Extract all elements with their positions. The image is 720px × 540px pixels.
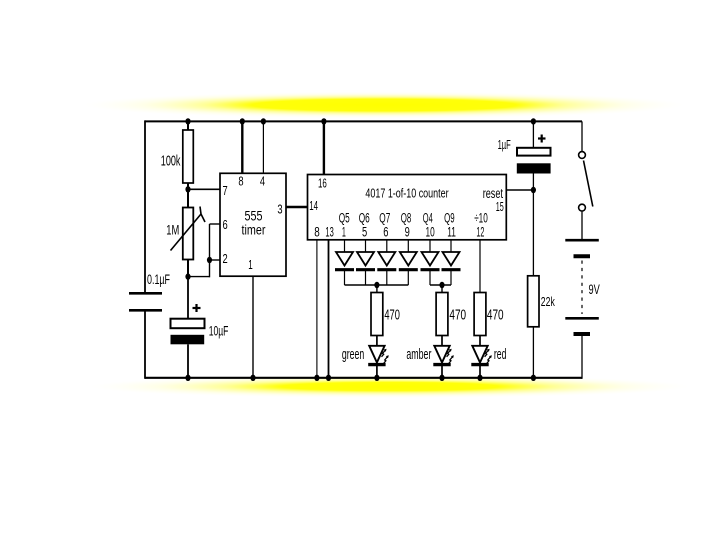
svg-text:0.1µF: 0.1µF	[147, 272, 170, 287]
svg-text:Q4: Q4	[423, 211, 433, 226]
svg-text:4017 1-of-10 counter: 4017 1-of-10 counter	[365, 186, 449, 201]
svg-text:3: 3	[277, 202, 282, 217]
node 22k rail	[531, 375, 536, 381]
capacitor 1uF plus sign	[538, 135, 546, 143]
svg-text:1M: 1M	[166, 222, 179, 238]
resistor 470 amber	[436, 293, 448, 336]
diode D5	[421, 240, 440, 285]
svg-text:22k: 22k	[541, 295, 556, 309]
battery 9V	[565, 240, 599, 379]
wire pin 13 to 0V rail	[328, 240, 330, 378]
node 10uF on 0V rail	[185, 375, 190, 381]
wire pin 2 stub	[210, 259, 221, 261]
resistor 1M (variable)	[183, 208, 194, 260]
node pin 8 rail	[240, 118, 245, 124]
yellow glow band bottom	[90, 375, 690, 398]
wire down to 10uF	[187, 277, 189, 319]
wire reset junction to 22k	[532, 190, 534, 276]
svg-text:10: 10	[426, 224, 435, 239]
LED green	[368, 336, 389, 378]
svg-text:14: 14	[309, 199, 318, 213]
diode D6	[442, 240, 461, 285]
wire junction to pin2/6 riser	[188, 276, 210, 278]
svg-text:8: 8	[238, 174, 243, 189]
wire left branch upper	[144, 120, 146, 293]
node 100k rail	[185, 118, 190, 124]
svg-text:9V: 9V	[589, 282, 600, 297]
svg-text:1: 1	[248, 257, 253, 272]
wire amber bus to resistor	[441, 285, 443, 293]
wire rail to 1uF	[532, 121, 534, 147]
node junction 1M bottom	[185, 273, 190, 279]
svg-text:6: 6	[223, 217, 228, 232]
svg-text:6: 6	[383, 224, 388, 239]
svg-text:12: 12	[476, 224, 484, 239]
wire top supply rail	[145, 120, 582, 122]
wire amber diode bus	[430, 284, 451, 286]
node 1uF rail	[531, 118, 536, 124]
node reset junction	[531, 187, 536, 193]
svg-text:16: 16	[318, 177, 327, 191]
svg-text:1: 1	[342, 224, 346, 239]
node pin 4 rail	[261, 118, 266, 124]
node junction pin 2	[207, 257, 212, 263]
IC U2 4017 counter box	[308, 175, 507, 240]
node pin 13 rail	[326, 375, 331, 381]
svg-text:green: green	[342, 346, 364, 363]
LED amber	[433, 336, 454, 378]
svg-text:11: 11	[447, 224, 456, 239]
node amber LED rail	[439, 375, 444, 381]
svg-text:470: 470	[487, 308, 504, 324]
wire 100k bottom	[187, 183, 189, 208]
svg-text:Q6: Q6	[359, 211, 370, 226]
capacitor 0.1uF plates	[129, 293, 162, 310]
op-amp U1 555 timer box	[220, 173, 286, 276]
svg-text:10µF: 10µF	[209, 322, 229, 338]
svg-text:red: red	[494, 346, 507, 363]
wire green diode bus	[345, 284, 409, 286]
svg-text:1µF: 1µF	[498, 137, 511, 152]
svg-text:Q7: Q7	[379, 211, 390, 226]
wire green bus to resistor	[376, 285, 378, 293]
wire pin 4 to rail	[262, 121, 264, 173]
svg-text:Q5: Q5	[339, 211, 350, 226]
capacitor 1uF negative plate	[517, 163, 551, 173]
capacitor 10uF plus sign	[193, 304, 201, 312]
wire pin 1 to 0V rail	[252, 276, 254, 378]
svg-text:5: 5	[362, 224, 367, 239]
node pin 16 rail	[321, 118, 326, 124]
svg-text:4: 4	[260, 174, 265, 189]
svg-text:8: 8	[314, 224, 320, 239]
diode D3	[377, 240, 396, 285]
capacitor 10uF negative plate	[171, 335, 205, 345]
svg-text:amber: amber	[406, 346, 431, 363]
svg-text:Q9: Q9	[444, 211, 455, 226]
wire pin 6 stub	[210, 223, 221, 225]
resistor 100k	[183, 130, 194, 183]
resistor 470 green	[371, 293, 383, 336]
wire to pin 7	[188, 188, 220, 190]
svg-text:555: 555	[245, 209, 263, 224]
diode D4	[399, 240, 418, 285]
node pin 8 rail	[314, 375, 319, 381]
svg-text:100k: 100k	[161, 152, 181, 169]
wire bottom 0V rail	[145, 377, 582, 379]
wire 100k top	[187, 121, 189, 130]
svg-text:7: 7	[223, 183, 228, 198]
capacitor 10uF positive plate	[171, 319, 205, 329]
diode D2	[356, 240, 375, 285]
wire left branch lower	[144, 311, 146, 379]
wire pin 16 to rail	[323, 121, 325, 174]
node pin 1 rail	[250, 375, 255, 381]
wire 1uF to reset junction	[532, 174, 534, 191]
wire riser pin6-pin2	[209, 224, 211, 277]
wire reset pin 15 stub	[506, 189, 533, 191]
node junction 100k/1M/pin7	[185, 186, 190, 192]
svg-text:15: 15	[496, 200, 504, 214]
wire 22k to 0V rail	[532, 327, 534, 378]
wire pin 8 to rail	[241, 121, 243, 173]
wire 10uF to 0V rail	[187, 344, 189, 378]
switch S1	[579, 121, 593, 240]
svg-text:reset: reset	[483, 186, 503, 201]
node red LED rail	[477, 375, 482, 381]
svg-text:2: 2	[223, 251, 228, 266]
svg-text:13: 13	[325, 224, 333, 239]
diode D1	[335, 240, 354, 285]
resistor 22k	[528, 276, 539, 327]
LED red	[471, 336, 492, 378]
yellow glow band top	[84, 92, 684, 119]
svg-text:470: 470	[449, 308, 466, 324]
wire 1M bottom	[187, 260, 189, 277]
svg-text:Q8: Q8	[401, 211, 412, 226]
wire pin 8 to 0V rail	[316, 240, 318, 378]
svg-text:470: 470	[384, 308, 400, 324]
wire pin 3 to pin 14	[286, 206, 308, 208]
svg-text:timer: timer	[242, 223, 266, 238]
arrow of variable resistor 1M	[171, 207, 206, 251]
wire pin 12 down to red resistor	[479, 240, 481, 293]
svg-text:9: 9	[405, 224, 410, 239]
node green bus	[374, 282, 379, 288]
capacitor 1uF positive plate	[517, 148, 551, 156]
node amber bus	[439, 282, 444, 288]
node green LED rail	[374, 375, 379, 381]
resistor 470 red	[474, 293, 486, 336]
